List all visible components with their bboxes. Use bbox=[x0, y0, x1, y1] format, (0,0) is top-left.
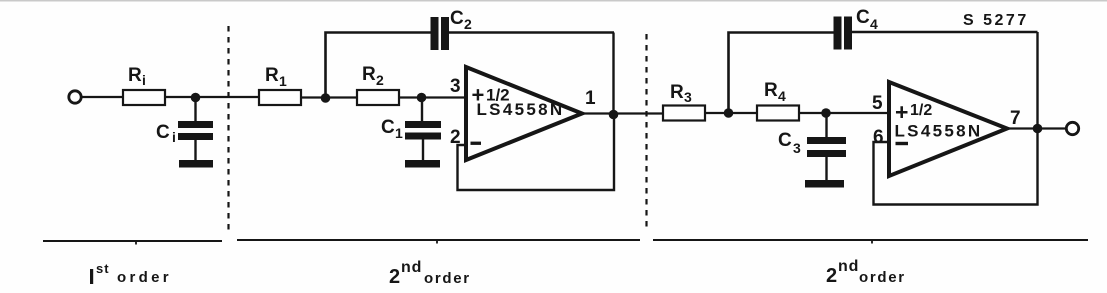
input terminal bbox=[69, 91, 81, 103]
resistor R2 bbox=[357, 90, 399, 105]
svg-text:2: 2 bbox=[464, 16, 472, 32]
dashed boundary 2 bbox=[645, 34, 647, 232]
wire bbox=[301, 96, 357, 98]
svg-text:C: C bbox=[381, 117, 395, 138]
wire bbox=[1007, 127, 1066, 129]
svg-text:S 5277: S 5277 bbox=[963, 12, 1029, 29]
svg-text:R: R bbox=[764, 80, 778, 101]
capacitor Ci bbox=[178, 121, 213, 128]
resistor R1 bbox=[259, 90, 301, 105]
ground bbox=[405, 160, 440, 168]
svg-text:5: 5 bbox=[872, 93, 883, 114]
wire bbox=[458, 113, 615, 190]
wire bbox=[582, 112, 663, 114]
wire bbox=[825, 113, 827, 138]
capacitor C4 bbox=[834, 17, 842, 50]
svg-text:C: C bbox=[778, 130, 792, 151]
svg-text:3: 3 bbox=[450, 76, 461, 97]
svg-text:LS4558N: LS4558N bbox=[477, 100, 565, 119]
wire bbox=[612, 33, 614, 116]
svg-text:R: R bbox=[265, 65, 279, 86]
wire bbox=[165, 96, 259, 98]
bracket 1st order bbox=[43, 240, 222, 242]
minus sign U2 bbox=[896, 142, 909, 145]
svg-text:C: C bbox=[856, 7, 870, 28]
ground bbox=[805, 180, 844, 188]
wire bbox=[326, 33, 432, 99]
svg-text:2: 2 bbox=[826, 265, 837, 287]
node D bbox=[609, 110, 619, 120]
wire bbox=[825, 157, 827, 181]
wire bbox=[194, 98, 196, 123]
node E bbox=[724, 108, 734, 118]
svg-text:order: order bbox=[859, 269, 906, 286]
node G bbox=[1033, 124, 1043, 134]
wire bbox=[449, 31, 614, 33]
node C bbox=[417, 93, 427, 103]
svg-text:order: order bbox=[117, 269, 172, 286]
wire bbox=[422, 140, 424, 162]
op-amp U1 bbox=[466, 67, 582, 160]
svg-text:R: R bbox=[670, 82, 684, 103]
wire bbox=[194, 140, 196, 161]
svg-text:1: 1 bbox=[585, 88, 596, 109]
op-amp U2 bbox=[889, 82, 1007, 176]
wire bbox=[852, 31, 1038, 33]
minus sign U1 bbox=[471, 142, 482, 145]
svg-text:1/2: 1/2 bbox=[910, 102, 932, 119]
wire bbox=[874, 129, 1038, 205]
svg-text:R: R bbox=[362, 64, 376, 85]
wire bbox=[1036, 32, 1038, 129]
capacitor C1 bbox=[405, 121, 441, 128]
output terminal bbox=[1066, 122, 1078, 134]
ground bbox=[179, 160, 213, 168]
resistor R3 bbox=[663, 106, 705, 121]
capacitor C2 bbox=[431, 17, 439, 50]
svg-text:4: 4 bbox=[870, 16, 878, 32]
svg-text:2: 2 bbox=[389, 266, 400, 288]
svg-text:nd: nd bbox=[838, 258, 859, 275]
svg-text:nd: nd bbox=[401, 259, 422, 276]
svg-text:1: 1 bbox=[279, 73, 287, 89]
svg-text:3: 3 bbox=[793, 140, 801, 156]
wire bbox=[799, 112, 889, 114]
resistor R4 bbox=[757, 106, 799, 121]
svg-text:4: 4 bbox=[778, 88, 786, 104]
bracket 2nd order bbox=[237, 239, 640, 241]
svg-text:2: 2 bbox=[376, 72, 384, 88]
wire bbox=[81, 96, 124, 98]
wire bbox=[705, 112, 757, 114]
svg-text:C: C bbox=[450, 8, 464, 29]
dashed boundary 1 bbox=[227, 26, 229, 235]
node A bbox=[191, 93, 201, 103]
svg-text:R: R bbox=[128, 65, 142, 86]
resistor Ri bbox=[123, 90, 165, 105]
svg-text:LS4558N: LS4558N bbox=[895, 122, 983, 141]
capacitor C3 bbox=[807, 137, 846, 144]
svg-text:C: C bbox=[156, 122, 170, 143]
bracket 3rd section bbox=[653, 239, 1088, 241]
wire bbox=[399, 96, 466, 98]
label 1st order bbox=[90, 269, 93, 284]
svg-text:i: i bbox=[172, 129, 176, 145]
svg-text:order: order bbox=[424, 270, 471, 287]
svg-text:st: st bbox=[96, 261, 110, 276]
svg-text:3: 3 bbox=[684, 89, 692, 105]
svg-text:i: i bbox=[142, 72, 146, 88]
node B bbox=[321, 93, 331, 103]
wire bbox=[421, 98, 423, 123]
node F bbox=[821, 108, 831, 118]
svg-text:1: 1 bbox=[395, 125, 403, 141]
svg-text:7: 7 bbox=[1010, 108, 1021, 129]
wire bbox=[729, 33, 835, 114]
